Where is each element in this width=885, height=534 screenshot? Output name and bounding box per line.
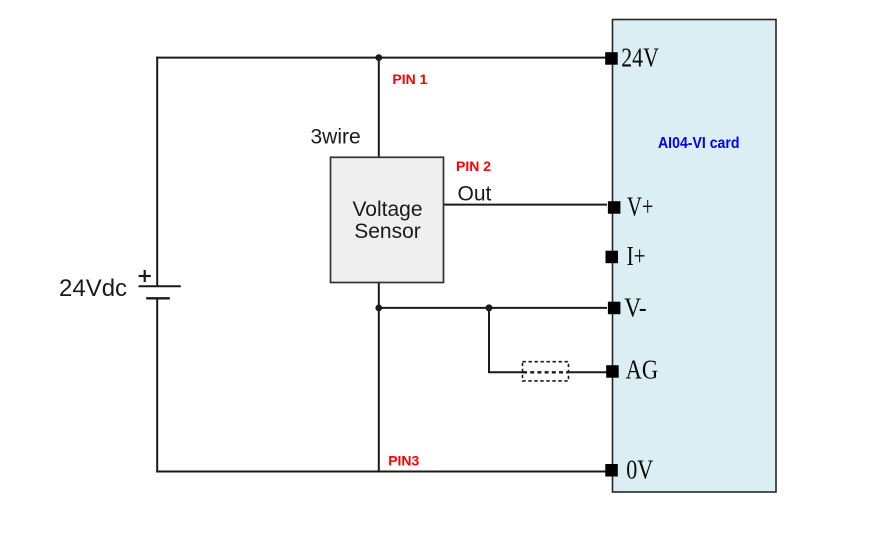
wire: left vertical battery branch upper — [156, 57, 158, 286]
svg-text:AG: AG — [626, 354, 659, 384]
wire: sensor bottom vertical PIN3 drop — [378, 282, 380, 471]
junction node at AG branch — [486, 304, 493, 311]
battery 24Vdc: + sign — [139, 275, 151, 277]
battery long plate (positive) — [139, 285, 181, 287]
svg-text:PIN 1: PIN 1 — [392, 71, 427, 87]
dashed box (optional jumper) on AG line — [523, 362, 569, 381]
wire: sensor top vertical PIN1 drop — [378, 58, 380, 158]
terminal square 0V — [605, 464, 618, 477]
svg-text:Voltage: Voltage — [352, 198, 422, 221]
svg-text:Sensor: Sensor — [354, 220, 421, 243]
svg-text:AI04-VI card: AI04-VI card — [658, 135, 740, 152]
svg-text:PIN 2: PIN 2 — [456, 158, 491, 174]
AI04-VI card body — [613, 20, 777, 493]
svg-text:0V: 0V — [626, 455, 653, 485]
svg-text:I+: I+ — [627, 241, 646, 271]
wire: AG dashed segment inside box — [523, 371, 568, 373]
svg-text:24V: 24V — [621, 43, 659, 73]
wire: AG wire right of dashed box — [568, 371, 607, 373]
svg-text:Out: Out — [458, 183, 492, 206]
Voltage Sensor box — [331, 157, 444, 282]
wire: bottom wire PIN3 run to 0V pin — [156, 471, 606, 473]
terminal square I+ — [606, 251, 619, 264]
wire: V- wire — [379, 307, 607, 309]
terminal square AG — [606, 365, 619, 378]
svg-text:3wire: 3wire — [311, 125, 361, 148]
wire: top wire from battery + to 24V pin — [156, 57, 606, 59]
terminal square V+ — [608, 201, 621, 214]
wire: Out wire from sensor to V+ pin — [444, 204, 608, 206]
terminal square V- — [608, 302, 621, 315]
battery short plate (negative) — [146, 297, 170, 299]
wire: AG branch vertical — [488, 308, 490, 372]
junction node at sensor bottom / V- — [375, 305, 382, 312]
wire: AG wire left of dashed box — [488, 371, 523, 373]
svg-text:PIN3: PIN3 — [388, 453, 419, 469]
svg-text:V-: V- — [624, 292, 647, 322]
junction node at PIN1 top — [375, 54, 382, 61]
wire: left vertical battery branch lower — [156, 298, 158, 472]
svg-text:24Vdc: 24Vdc — [59, 275, 127, 302]
svg-text:V+: V+ — [627, 192, 654, 222]
terminal square 24V — [605, 52, 618, 64]
